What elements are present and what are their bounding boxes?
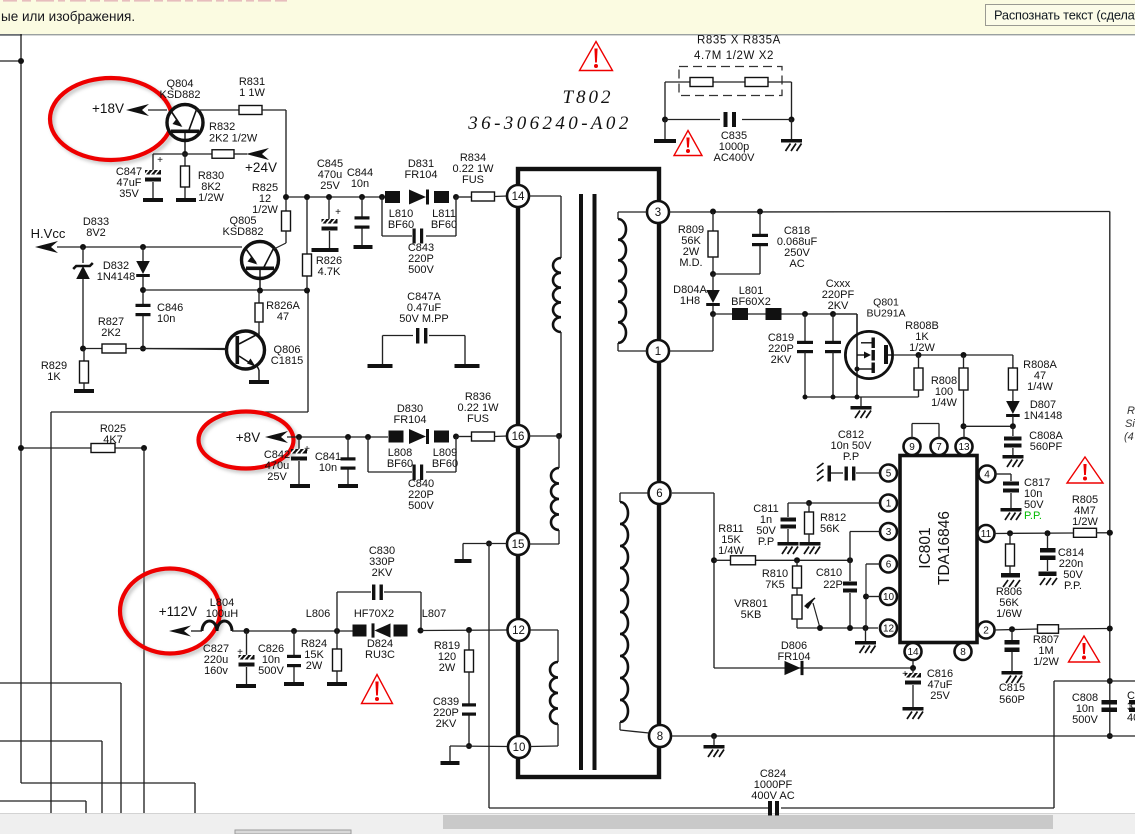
wire R835 right leg (791, 82, 793, 120)
net +8V ellipse highlight (199, 412, 297, 472)
resistor R834 (453, 152, 495, 201)
diode D804A (673, 274, 720, 314)
node pin3 branch (847, 557, 853, 563)
node right bus R807 (1107, 626, 1113, 632)
capacitor C8xx edge (1127, 690, 1135, 724)
wire R827 row (83, 348, 227, 350)
node right bus box (1107, 678, 1113, 684)
transformer core line 1 (579, 194, 583, 770)
wire pin6t riser (672, 493, 714, 668)
svg-text:10n: 10n (319, 462, 337, 474)
svg-text:KSD882: KSD882 (223, 226, 264, 238)
node rail C845 (326, 194, 332, 200)
wire pin13 row (964, 425, 1013, 427)
resistor R808A (1008, 355, 1057, 403)
svg-text:T802: T802 (562, 87, 613, 108)
svg-text:1: 1 (655, 346, 661, 358)
wire rail y197 (286, 196, 390, 198)
wire R811 row (797, 559, 850, 561)
resistor R829 (41, 349, 94, 394)
svg-text:KSD882: KSD882 (160, 89, 201, 101)
wire pin6 branch (866, 564, 880, 628)
svg-text:2K2: 2K2 (101, 327, 121, 339)
svg-text:2W: 2W (439, 662, 456, 674)
winding primary upper lead (529, 196, 561, 258)
svg-text:3: 3 (655, 207, 661, 219)
resistor R808B (905, 320, 939, 397)
resistor R810 (762, 560, 802, 595)
node winding pin16 (556, 433, 562, 439)
winding primary upper (553, 258, 561, 332)
wire pin2 row (994, 629, 1110, 631)
svg-text:12: 12 (512, 625, 525, 637)
svg-text:P.P: P.P (758, 536, 774, 548)
capacitor C841 (315, 437, 358, 488)
svg-text:FUS: FUS (462, 174, 484, 186)
pin 15 (507, 533, 529, 555)
svg-text:Распознать текст (сделат: Распознать текст (сделат (994, 8, 1135, 23)
svg-text:1H8: 1H8 (680, 295, 700, 307)
diode D824 (365, 623, 395, 660)
capacitor C818 (713, 212, 817, 275)
label L807 (422, 608, 446, 620)
resistor R824 (301, 631, 347, 686)
diode D806 (777, 640, 810, 675)
svg-text:ые или изображения.: ые или изображения. (1, 9, 135, 24)
inductor L809 (432, 431, 458, 470)
winding sec 12-10 lead (530, 630, 558, 662)
svg-text:1/4W: 1/4W (718, 545, 744, 557)
header text russian (1, 9, 135, 24)
wire pin1 riser (670, 314, 713, 351)
svg-text:4.7K: 4.7K (318, 266, 341, 278)
capacitor C808 (1072, 692, 1117, 726)
svg-text:10n: 10n (157, 313, 175, 325)
svg-text:P.P: P.P (843, 451, 859, 463)
svg-text:25V: 25V (930, 690, 950, 702)
inductor HF70X2 bead left (353, 625, 367, 637)
svg-text:9: 9 (909, 442, 915, 453)
node R827 right (140, 346, 146, 352)
svg-text:10n: 10n (351, 178, 369, 190)
svg-text:BU291A: BU291A (866, 307, 905, 319)
node R025 right (141, 445, 147, 451)
bottom partial scrollbar (235, 830, 351, 834)
ground C835 left (654, 120, 676, 144)
transformer T802 frame (518, 169, 659, 777)
svg-text:50V M.PP: 50V M.PP (399, 313, 449, 325)
node D833 top (80, 244, 86, 250)
svg-text:11: 11 (981, 529, 992, 540)
capacitor C824 (751, 768, 794, 816)
wire pin15 left (463, 543, 507, 545)
svg-text:1/2W: 1/2W (252, 204, 278, 216)
wire right bus x1110 (1109, 212, 1111, 737)
wire C830 loop (337, 592, 421, 631)
node right bus C808 (1107, 733, 1113, 739)
wire R835 row (665, 81, 792, 83)
node C840 right (453, 434, 459, 440)
svg-text:FR104: FR104 (393, 414, 426, 426)
wire C846 to R827 row (142, 318, 144, 349)
ground pin10 row (441, 746, 460, 765)
node rail C844 (359, 194, 365, 200)
svg-text:7: 7 (936, 442, 942, 453)
node Q805 emitter (257, 288, 263, 294)
node L807 (418, 628, 424, 634)
capacitor C845 (312, 158, 344, 252)
svg-text:16: 16 (512, 431, 525, 443)
wire L807 to pin12 (421, 629, 508, 632)
ground pin15 (455, 544, 472, 564)
header top clipped red text remnant (3, 0, 287, 2)
svg-text:RU3C: RU3C (365, 649, 395, 661)
node C840 left (365, 434, 371, 440)
node D804A bottom (710, 311, 716, 317)
svg-text:BF60: BF60 (388, 219, 414, 231)
ic pin 8b (955, 643, 972, 660)
svg-text:25V: 25V (267, 471, 287, 483)
wire drain row y355 (893, 354, 1013, 356)
resistor R025 (91, 423, 126, 453)
node source Cxxx (831, 395, 836, 400)
title T802 (562, 87, 613, 108)
net H.Vcc (31, 226, 242, 253)
wire source row y397 (805, 396, 919, 398)
capacitor C815 (999, 629, 1025, 706)
inductor HF70X2 bead right (394, 625, 408, 637)
wire pin10 row (450, 745, 508, 748)
resistor R805 body (1074, 528, 1110, 537)
svg-text:FUS: FUS (467, 413, 489, 425)
wire +8V row (287, 436, 388, 438)
svg-text:2KV: 2KV (372, 567, 393, 579)
wire bus x195 (194, 783, 196, 813)
wire pin13 up (963, 426, 965, 438)
label L806 (306, 608, 330, 620)
svg-text:IC801: IC801 (917, 527, 934, 568)
wire C835 row (665, 119, 792, 121)
node C839 bottom (466, 743, 472, 749)
capacitor C816 (902, 668, 953, 719)
svg-text:14: 14 (512, 191, 525, 203)
svg-text:BF60: BF60 (387, 458, 413, 470)
wire Q804 collector to R831 (196, 109, 239, 111)
ground pin8 row (704, 736, 725, 757)
node R806 top (1007, 530, 1013, 536)
wire R834 to pin14 (494, 195, 507, 198)
node R827 left (80, 346, 86, 352)
node R819 top (466, 627, 472, 633)
pin 3 (647, 201, 669, 223)
svg-text:+: + (902, 669, 908, 680)
capacitor C847 (116, 154, 163, 202)
wire C843 loop (382, 197, 456, 236)
svg-text:M.D.: M.D. (679, 257, 702, 269)
wire bus x102 (101, 741, 103, 813)
svg-text:R: R (1127, 405, 1135, 417)
wire R836 to pin16 (494, 435, 507, 438)
ic pin 5 (880, 465, 897, 482)
svg-text:H.Vcc: H.Vcc (31, 226, 66, 241)
pin 16 (507, 425, 529, 447)
node R824 loop left (334, 628, 340, 634)
capacitor C827 (203, 631, 256, 688)
button recognize text (986, 5, 1135, 26)
svg-text:+: + (335, 207, 341, 218)
diode D831 (404, 158, 437, 205)
svg-text:+112V: +112V (159, 604, 197, 619)
pin 6 (649, 482, 671, 504)
transformer core line 2 (593, 194, 597, 770)
svg-text:AC: AC (789, 258, 804, 270)
svg-text:47: 47 (277, 311, 289, 323)
svg-text:5: 5 (886, 469, 892, 480)
svg-text:1: 1 (886, 499, 892, 510)
wire R835 left leg (664, 82, 666, 120)
capacitor C812 (817, 429, 880, 482)
wire pin11 row (994, 532, 1074, 535)
resistor R806 (996, 533, 1023, 620)
node C815 top (1009, 626, 1015, 632)
winding primary lower lead (560, 332, 562, 436)
node R826 bottom (304, 288, 310, 294)
svg-text:1/2W: 1/2W (909, 342, 935, 354)
svg-text:FR104: FR104 (404, 169, 437, 181)
resistor R807 (1033, 625, 1060, 668)
transistor Q806 (227, 331, 304, 384)
svg-text:4: 4 (984, 470, 990, 481)
ic pin 3 (880, 523, 897, 540)
svg-text:C1815: C1815 (271, 355, 303, 367)
capacitor C843 (408, 229, 435, 276)
svg-text:R832: R832 (209, 121, 235, 133)
wire box top (1054, 680, 1135, 682)
ground ic pin12 row (855, 628, 876, 653)
resistor R827 (98, 316, 126, 353)
capacitor C808A (1003, 426, 1064, 467)
node D832 top (140, 244, 146, 250)
node gnd 12 (863, 625, 869, 631)
resistor R812 (800, 503, 847, 554)
svg-text:BF60: BF60 (432, 458, 458, 470)
svg-text:13: 13 (958, 442, 970, 453)
wire bus y741 (0, 740, 102, 742)
svg-text:2KV: 2KV (771, 354, 792, 366)
svg-text:560PF: 560PF (1030, 441, 1063, 453)
capacitor C810 (816, 560, 857, 628)
label R835 X R835A (697, 35, 781, 47)
node Cxxx top (830, 311, 836, 317)
ic pin 10 (880, 588, 897, 605)
node VR801 wiper (817, 625, 823, 631)
warning triangle C835 (674, 131, 702, 156)
capacitor C817 (1001, 477, 1051, 522)
ic pin 13 (956, 438, 973, 455)
warning triangle top (580, 42, 613, 71)
node C826 (291, 628, 297, 634)
winding sec 12-10 (550, 662, 558, 724)
svg-text:1K: 1K (47, 371, 61, 383)
svg-text:+24V: +24V (245, 160, 277, 175)
resistor R835A (745, 78, 768, 87)
svg-text:10: 10 (883, 592, 895, 603)
ic pin 11 (978, 525, 995, 542)
node C842 (296, 434, 302, 440)
svg-text:500V: 500V (408, 500, 434, 512)
wire Q801 corner (833, 313, 857, 315)
svg-text:2W: 2W (306, 660, 323, 672)
node C841 (345, 434, 351, 440)
svg-text:400V AC: 400V AC (751, 790, 794, 802)
svg-text:FR104: FR104 (777, 651, 810, 663)
wire box left (1053, 681, 1055, 808)
svg-text:1/4W: 1/4W (931, 397, 957, 409)
svg-text:22P: 22P (823, 579, 843, 591)
node pin10 branch (863, 594, 869, 600)
node C810 bottom (847, 625, 853, 631)
svg-text:40: 40 (1127, 712, 1135, 724)
svg-text:TDA16846: TDA16846 (936, 511, 953, 585)
capacitor C811 (753, 503, 809, 554)
resistor R826A (255, 291, 300, 333)
node R809 top (710, 209, 716, 215)
wire bus x144 (143, 448, 145, 813)
diode D832 (97, 247, 150, 302)
footer grey band (0, 813, 1135, 834)
svg-text:100uH: 100uH (206, 608, 238, 620)
net label +8V (236, 430, 288, 445)
capacitor C819 (768, 314, 813, 397)
node top-left (18, 58, 24, 64)
resistor R835 (690, 78, 713, 87)
svg-text:1 1W: 1 1W (239, 87, 265, 99)
wire bus y801 (0, 800, 86, 802)
svg-text:4.7M 1/2W X2: 4.7M 1/2W X2 (694, 50, 774, 62)
svg-text:8V2: 8V2 (86, 227, 106, 239)
node C818 top (757, 209, 763, 215)
wire pin3 riser (850, 532, 880, 561)
svg-text:L806: L806 (306, 608, 330, 620)
svg-text:Si: Si (1125, 418, 1135, 430)
wire bracket 9-7 (912, 424, 939, 439)
node pin8 gnd (711, 733, 717, 739)
wire R025 row (21, 447, 144, 449)
header yellow toolbar (0, 0, 1135, 34)
wire emitter node (153, 153, 212, 155)
svg-text:R835 X R835A: R835 X R835A (697, 35, 781, 47)
svg-text:BF60X2: BF60X2 (731, 296, 771, 308)
ic pin 9 (904, 438, 921, 455)
wire D806 row (714, 667, 913, 669)
node Q804 emitter (182, 151, 188, 157)
resistor R811 (714, 523, 797, 565)
svg-text:C810: C810 (816, 567, 842, 579)
svg-text:6: 6 (886, 560, 892, 571)
ic pin 2 (978, 622, 995, 639)
svg-text:1/2W: 1/2W (1033, 656, 1059, 668)
wire bus x86 (85, 801, 87, 813)
resistor R830 (176, 154, 224, 204)
pin 12 (508, 619, 530, 641)
warning triangle R807 (1069, 636, 1100, 662)
svg-text:+18V: +18V (92, 101, 124, 116)
svg-text:5KB: 5KB (741, 609, 762, 621)
wire pin4 row (995, 474, 1011, 481)
capacitor C844 (347, 167, 373, 249)
node R809 bottom (710, 271, 716, 277)
dashed box R835 (679, 67, 782, 96)
wire pin10 branch (866, 596, 880, 598)
svg-text:560P: 560P (999, 694, 1025, 706)
svg-text:7K5: 7K5 (765, 579, 785, 591)
diode D807 (1006, 399, 1062, 426)
node R811 left (711, 557, 717, 563)
ic pin 1 (880, 495, 897, 512)
svg-text:2K2 1/2W: 2K2 1/2W (209, 133, 258, 145)
wire gate row (713, 313, 857, 315)
svg-text:56K: 56K (820, 523, 840, 535)
node rail R826 (304, 194, 310, 200)
wire bus x51 (50, 412, 52, 813)
wire bus y783 (21, 782, 195, 784)
capacitor C847A (368, 291, 480, 368)
mosfet Q801 (845, 296, 905, 397)
net +112V ellipse highlight (120, 569, 223, 657)
warning triangle R805 (1067, 457, 1103, 483)
resistor R808 (931, 355, 968, 426)
svg-text:C815: C815 (999, 682, 1025, 694)
svg-text:P.P.: P.P. (1064, 580, 1082, 592)
svg-text:2KV: 2KV (436, 718, 457, 730)
wire Q806 base (143, 349, 227, 350)
wire to R836 (456, 436, 472, 438)
pin 10 (508, 736, 530, 758)
capacitor C835 (714, 112, 756, 164)
svg-text:4K7: 4K7 (103, 434, 123, 446)
node C827 (244, 628, 250, 634)
capacitor C840 (408, 465, 435, 512)
wire bus x308 (307, 291, 309, 412)
label 4.7M 1/2W X2 (694, 50, 774, 62)
svg-text:+: + (237, 647, 243, 658)
ic pin 12 (880, 620, 897, 637)
svg-text:1N4148: 1N4148 (1024, 410, 1063, 422)
capacitor Cxxx (822, 278, 855, 397)
svg-text:500V: 500V (408, 264, 434, 276)
wire pin3 row (669, 211, 1110, 214)
header bottom border (0, 34, 1135, 36)
svg-text:P.P.: P.P. (1024, 510, 1042, 522)
wire pin16 to winding (529, 435, 559, 437)
transistor Q804 (160, 78, 203, 154)
capacitor C826 (258, 631, 304, 686)
capacitor C842 (264, 437, 310, 488)
svg-text:1/2W: 1/2W (198, 192, 224, 204)
wire C840 loop (368, 437, 456, 472)
node C843 left (379, 194, 385, 200)
svg-text:25V: 25V (320, 180, 340, 192)
svg-text:1/6W: 1/6W (996, 608, 1022, 620)
pin 14 (507, 185, 529, 207)
winding sec 12-10 bottom lead (530, 724, 558, 747)
svg-text:3: 3 (886, 527, 892, 538)
capacitor C839 (433, 696, 476, 746)
svg-text:6: 6 (656, 488, 662, 500)
pin 1 (647, 340, 669, 362)
resistor R805 (1072, 494, 1099, 528)
node R810 top (794, 557, 800, 563)
